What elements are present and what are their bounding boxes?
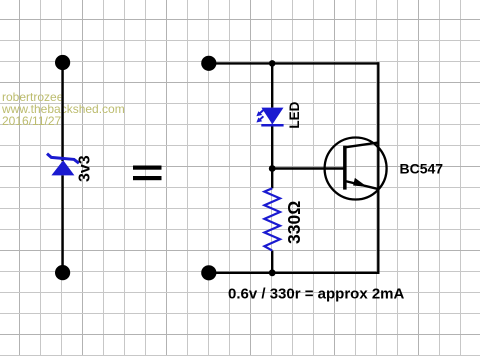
equivalence symbol bottom bar bbox=[133, 176, 162, 180]
node bottom rail left bbox=[201, 265, 216, 280]
LED arrow 2 bbox=[256, 116, 263, 122]
transistor Q1 collector lead bbox=[345, 143, 378, 148]
junction base node bbox=[269, 165, 276, 172]
junction LED branch / top rail bbox=[269, 60, 276, 67]
svg-text:LED: LED bbox=[287, 101, 302, 128]
node left top bbox=[55, 55, 70, 70]
LED D2 triangle bbox=[261, 108, 283, 125]
wire bottom rail bbox=[209, 272, 380, 274]
svg-text:BC547: BC547 bbox=[400, 161, 444, 177]
equivalence symbol top bar bbox=[133, 166, 162, 170]
junction resistor / bottom rail bbox=[269, 269, 276, 276]
zener diode D1 cathode bar bbox=[47, 154, 79, 164]
resistor R1 zigzag bbox=[264, 188, 280, 250]
svg-text:3v3: 3v3 bbox=[77, 155, 94, 182]
transistor Q1 circle bbox=[325, 138, 387, 200]
node left bottom bbox=[55, 265, 70, 280]
wire left (upper segment) bbox=[61, 63, 63, 162]
wire right side bbox=[377, 62, 379, 274]
transistor Q1 emitter arrowhead bbox=[353, 178, 367, 187]
wire left (lower segment) bbox=[61, 175, 63, 272]
LED D2 cathode bar bbox=[261, 124, 283, 127]
transistor Q1 emitter lead bbox=[345, 181, 378, 189]
zener diode D1 anode triangle bbox=[51, 160, 74, 175]
wire top rail bbox=[209, 62, 380, 64]
svg-text:2016/11/27: 2016/11/27 bbox=[2, 114, 61, 128]
wire LED branch middle bbox=[271, 125, 273, 188]
svg-text:0.6v / 330r = approx 2mA: 0.6v / 330r = approx 2mA bbox=[228, 286, 405, 303]
node top rail left bbox=[201, 56, 216, 71]
wire LED branch upper bbox=[271, 63, 273, 107]
transistor Q1 base bar bbox=[343, 146, 347, 190]
LED arrow 1 bbox=[256, 110, 263, 116]
svg-text:330Ω: 330Ω bbox=[284, 201, 304, 244]
wire base bbox=[272, 167, 345, 169]
wire LED branch lower bbox=[271, 251, 273, 273]
